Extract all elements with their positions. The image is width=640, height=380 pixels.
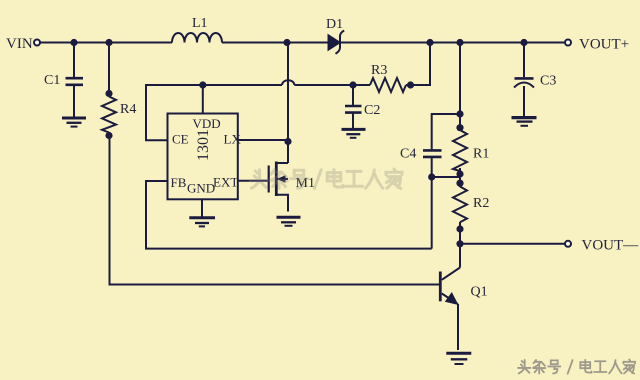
- svg-text:VOUT+: VOUT+: [579, 37, 629, 53]
- node R3 top junction: [426, 39, 433, 46]
- terminal VOUT+: [565, 40, 571, 46]
- node R4 top junction: [105, 39, 112, 46]
- transistor M1 gate bar: [268, 166, 270, 193]
- node C3 junction: [520, 39, 527, 46]
- transistor M1 drain lead: [277, 162, 289, 164]
- capacitor C3 stem top: [523, 43, 525, 78]
- node L1/D1/LX junction: [283, 39, 290, 46]
- resistor R1: [453, 130, 467, 171]
- svg-text:R3: R3: [371, 63, 387, 78]
- wire C4 bottom to FB wire: [431, 158, 433, 249]
- wire L1 to D1: [222, 42, 329, 44]
- svg-text:FB: FB: [171, 175, 187, 190]
- transistor M1 body arrow: [277, 175, 286, 182]
- wire VDD net y85 left segment: [146, 84, 282, 86]
- svg-text:L1: L1: [192, 16, 208, 31]
- ground under C1: [62, 118, 86, 127]
- watermark bottom right: [518, 360, 635, 374]
- capacitor C2 stem bottom: [352, 114, 354, 128]
- svg-text:GND: GND: [187, 180, 215, 195]
- wire R4 top: [108, 43, 110, 95]
- wire top rail VIN to L1: [40, 42, 172, 44]
- svg-text:CE: CE: [172, 131, 189, 146]
- node VOUT- junction: [456, 240, 463, 247]
- node R1 bottom terminal: [456, 170, 463, 177]
- wire Q1 emitter to ground: [457, 304, 459, 350]
- wire EXT pin to M1 gate: [238, 180, 268, 182]
- resistor R4: [102, 97, 116, 133]
- wire D1 to VOUT+ terminal: [340, 42, 565, 44]
- node LX/M1 drain junction: [284, 138, 291, 145]
- wire hop to C2/R3 node: [294, 84, 353, 86]
- capacitor C3 curved plate: [514, 83, 534, 88]
- transistor M1 source lead: [277, 195, 289, 212]
- ground under Q1 emitter: [446, 353, 471, 364]
- wire R1 to R2: [459, 168, 461, 187]
- capacitor C2 plates: [345, 105, 362, 108]
- wire C4 top branch: [432, 114, 460, 149]
- node R1 top rail junction: [456, 39, 463, 46]
- resistor R3: [370, 78, 406, 92]
- svg-text:D1: D1: [326, 17, 343, 32]
- capacitor C2 stem top: [352, 85, 354, 105]
- svg-text:C4: C4: [400, 147, 416, 162]
- watermark center: [250, 169, 402, 189]
- node VIN/C1 junction: [70, 39, 77, 46]
- capacitor C4 plates: [423, 149, 442, 152]
- node FB/C4 junction: [428, 173, 435, 180]
- svg-text:VIN: VIN: [6, 36, 33, 52]
- wire VOUT- rail: [460, 243, 565, 245]
- wire vertical rail to M1: [287, 43, 289, 164]
- wire R3 right to top rail: [406, 43, 430, 86]
- ground under IC GND pin: [189, 218, 215, 227]
- wire R4 bottom to Q1 base: [110, 136, 440, 285]
- wire R3 left lead: [353, 84, 370, 86]
- svg-text:C3: C3: [540, 74, 556, 89]
- svg-text:LX: LX: [224, 131, 242, 146]
- wire R2 bottom to Q1 collector: [459, 222, 461, 268]
- transistor M1 body lead: [278, 178, 289, 180]
- node R1 top terminal: [456, 124, 463, 131]
- inductor L1: [172, 33, 222, 43]
- IC U1 box 1301: [168, 114, 238, 200]
- node R4 bottom terminal: [105, 132, 112, 139]
- wire VDD pin: [202, 85, 204, 114]
- ground under M1 source: [277, 217, 301, 226]
- wire LX pin to M1 drain node: [238, 139, 288, 141]
- svg-text:EXT: EXT: [213, 175, 238, 190]
- svg-text:C1: C1: [44, 73, 60, 88]
- svg-text:R2: R2: [473, 196, 489, 211]
- node C2/R3 left junction: [349, 81, 356, 88]
- wire IC GND pin: [201, 199, 203, 216]
- svg-text:C2: C2: [364, 103, 380, 118]
- node R2 top terminal: [456, 180, 463, 187]
- wire hop over vertical: [282, 80, 294, 85]
- capacitor C1 plates: [66, 77, 84, 80]
- transistor Q1 emitter lead: [442, 294, 458, 304]
- svg-text:R1: R1: [473, 147, 489, 162]
- wire FB pin loop: [146, 181, 432, 249]
- svg-text:Q1: Q1: [471, 285, 488, 300]
- node R3 right junction: [407, 81, 414, 88]
- transistor Q1 emitter arrow: [445, 292, 459, 305]
- ground under C2: [342, 129, 366, 137]
- node C4 top junction: [456, 110, 463, 117]
- transistor Q1 collector lead: [442, 268, 460, 280]
- wire CE connection: [146, 84, 168, 140]
- terminal VOUT-: [565, 241, 571, 247]
- node R4 top terminal: [105, 90, 112, 97]
- terminal VIN: [34, 40, 40, 46]
- capacitor C3 flat plate: [515, 77, 534, 80]
- wire FB node to R1 R2 junction: [432, 176, 460, 178]
- diode D1: [329, 31, 345, 54]
- wire output rail down to R1: [459, 43, 461, 131]
- svg-text:VDD: VDD: [193, 116, 221, 131]
- svg-text:VOUT—: VOUT—: [582, 238, 640, 254]
- ground under C3: [512, 118, 537, 126]
- node VDD junction: [199, 81, 206, 88]
- svg-text:R4: R4: [120, 102, 136, 117]
- transistor M1 channel bar: [275, 162, 278, 197]
- node R2 bottom terminal: [456, 225, 463, 232]
- wire C1 branch: [73, 43, 75, 78]
- svg-text:1301: 1301: [195, 129, 212, 161]
- capacitor C3 stem bottom: [523, 86, 525, 116]
- resistor R2: [453, 187, 467, 223]
- transistor Q1 base bar: [439, 272, 442, 302]
